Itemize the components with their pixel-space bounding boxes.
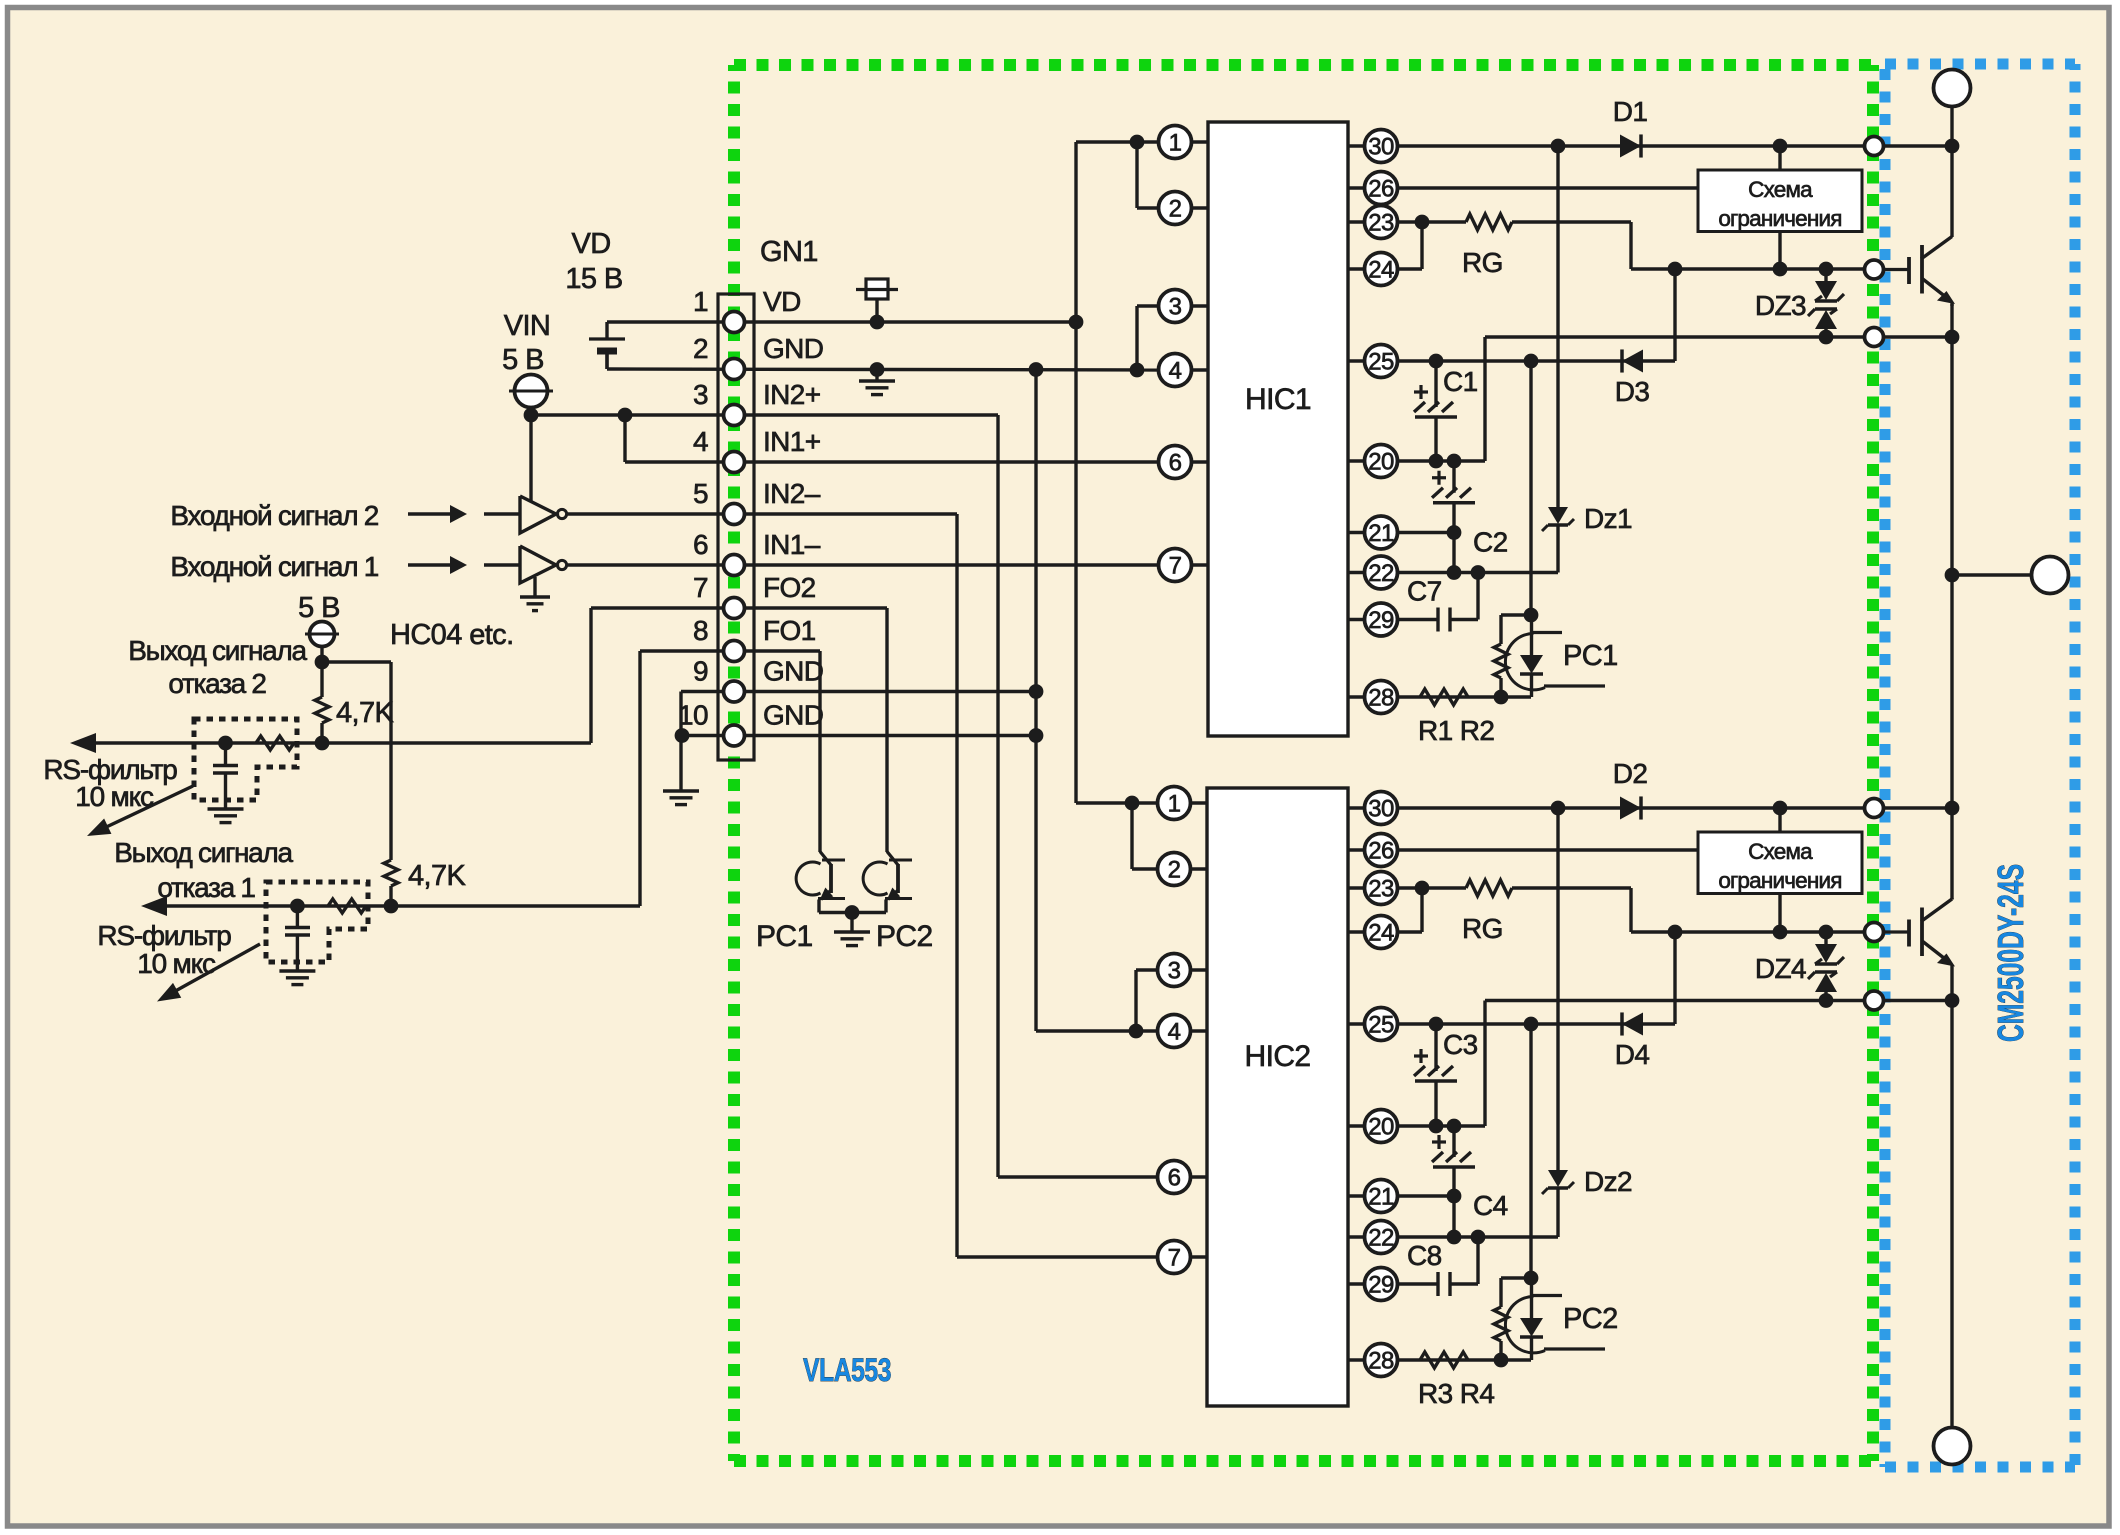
label RS-filter 2 (43, 754, 177, 812)
svg-text:3: 3 (1168, 958, 1181, 985)
wire limiter to gate ch2 (1778, 894, 1781, 933)
capacitor C3 (1414, 1024, 1457, 1126)
svg-text:5: 5 (693, 478, 708, 509)
svg-text:R3 R4: R3 R4 (1418, 1378, 1494, 1409)
label CM2500DY-24S (1990, 864, 2031, 1042)
svg-text:C2: C2 (1473, 527, 1508, 558)
wire GND pin9 (681, 692, 1036, 792)
power terminal 5V (305, 622, 339, 663)
wire IGBT2 emitter (1945, 965, 1960, 1428)
svg-text:GN1: GN1 (760, 236, 818, 268)
svg-text:7: 7 (1169, 553, 1182, 580)
label Dz2 (1584, 1166, 1632, 1197)
resistor R3 (1420, 1352, 1468, 1368)
pointer arrow RS-filter 1 (157, 944, 260, 1002)
svg-text:Схема: Схема (1748, 177, 1813, 202)
svg-text:RG: RG (1462, 247, 1503, 278)
svg-text:1: 1 (1169, 130, 1182, 157)
svg-text:IN1–: IN1– (763, 529, 821, 560)
svg-text:D1: D1 (1613, 96, 1648, 127)
hybrid IC HIC1 (1208, 122, 1348, 736)
resistor R1 (1420, 689, 1468, 705)
svg-text:20: 20 (1368, 1114, 1394, 1141)
resistor 4,7K lower (384, 662, 398, 906)
RS-filter 1 resistor (290, 899, 366, 914)
svg-text:25: 25 (1368, 349, 1394, 376)
wire pin25 ch1 (1398, 354, 1622, 369)
wire zener column Dz2 (1556, 808, 1559, 1170)
svg-text:7: 7 (1168, 1245, 1181, 1272)
RS-filter 2 capacitor (213, 743, 238, 809)
wire pin21 ch1 (1398, 525, 1461, 540)
wire to limiter box ch1 (1778, 146, 1781, 170)
transistor IGBT2 (lower) (1884, 898, 1956, 967)
svg-text:HIC2: HIC2 (1245, 1040, 1311, 1073)
svg-text:GND: GND (763, 700, 823, 731)
wire pin22 ch2 (1398, 1196, 1558, 1244)
svg-text:VIN: VIN (504, 310, 551, 342)
capacitor C2 (1432, 461, 1475, 533)
wire phase node (1945, 337, 1960, 900)
wire pin30 ch2 (1398, 801, 1866, 816)
transistor IGBT1 (upper) (1884, 237, 1956, 307)
HIC1 left pin circles (1158, 126, 1208, 582)
terminal G1 circle (1865, 137, 1884, 156)
svg-text:PC1: PC1 (756, 920, 813, 953)
label input signal 2 (170, 500, 378, 531)
svg-text:10: 10 (678, 700, 708, 731)
svg-text:DZ4: DZ4 (1755, 953, 1806, 984)
wire pin23 ch2 (1398, 881, 1631, 896)
svg-text:4: 4 (693, 426, 708, 457)
label D2 (1613, 758, 1648, 789)
wire collector bus (1945, 107, 1960, 238)
capacitor C8 (1438, 1272, 1450, 1296)
limiter box (Схема ограничения) ch2 (1698, 832, 1862, 894)
svg-text:D2: D2 (1613, 758, 1648, 789)
HIC2 right pin circles (1348, 792, 1398, 1377)
svg-text:7: 7 (693, 572, 708, 603)
svg-text:RS-фильтр: RS-фильтр (97, 920, 231, 951)
wire VD riser to HIC1 (1076, 135, 1166, 322)
svg-text:RG: RG (1462, 913, 1503, 944)
svg-text:23: 23 (1368, 876, 1394, 903)
wire to limiter box ch2 (1778, 808, 1781, 832)
svg-text:4,7K: 4,7K (336, 697, 395, 729)
HIC2 left pin circles (1158, 787, 1208, 1274)
label DZ4 (1755, 953, 1806, 984)
wire pin30 ch1 (1398, 139, 1866, 154)
label C4 (1473, 1190, 1508, 1221)
wire IN2- inverter out (567, 512, 957, 515)
wire IN1- inverter out (567, 563, 1166, 566)
svg-text:21: 21 (1368, 520, 1394, 547)
wire pin22 ch1 (1398, 533, 1558, 580)
terminal C2 circle (1865, 799, 1884, 818)
svg-text:2: 2 (1168, 857, 1181, 884)
wire pin29 ch1 (1398, 573, 1478, 620)
label Dz1 (1584, 503, 1632, 534)
battery VD (589, 322, 625, 369)
svg-text:2: 2 (1169, 196, 1182, 223)
svg-text:GND: GND (763, 656, 823, 687)
svg-text:D4: D4 (1615, 1039, 1650, 1070)
input arrow 2 (408, 505, 520, 523)
wire pin30 to IGBT1 (1866, 144, 1952, 147)
svg-text:IN1+: IN1+ (763, 426, 821, 457)
ground RS-filter 1 (279, 971, 315, 985)
wire IN1+ branch (625, 415, 1166, 462)
label input signal 1 (170, 551, 378, 582)
label D1 (1613, 96, 1648, 127)
HIC1 right pin circles (1348, 130, 1398, 714)
label D4 (1615, 1039, 1650, 1070)
wire PC column ch1 (1524, 361, 1539, 622)
svg-text:отказа 1: отказа 1 (157, 872, 255, 903)
optocoupler LED PC1 (1505, 615, 1605, 697)
wire pin21 ch2 (1398, 1189, 1461, 1204)
diode D4 (1622, 1012, 1643, 1035)
wire pin28 ch1 (1398, 690, 1531, 705)
resistor R4 (1494, 1278, 1531, 1360)
svg-text:D3: D3 (1615, 376, 1650, 407)
svg-text:PC2: PC2 (876, 920, 933, 953)
label D3 (1615, 376, 1650, 407)
connector GN1 pins (678, 286, 823, 746)
svg-text:HIC1: HIC1 (1245, 383, 1311, 416)
svg-text:6: 6 (1169, 450, 1182, 477)
terminal output (middle big circle) (2032, 557, 2069, 594)
svg-text:C4: C4 (1473, 1190, 1508, 1221)
svg-text:6: 6 (693, 529, 708, 560)
svg-text:FO2: FO2 (763, 572, 816, 603)
svg-text:22: 22 (1368, 560, 1394, 587)
wire IN2- riser to HIC2 (957, 514, 1166, 1257)
svg-text:VD: VD (763, 286, 801, 317)
wire VD net (607, 315, 1083, 330)
wire PC emitters (819, 905, 886, 932)
capacitor C7 (1438, 608, 1450, 632)
wire GND to HIC1 pin3 (1137, 306, 1166, 370)
svg-text:C8: C8 (1407, 1240, 1442, 1271)
wire D4 branch (1622, 932, 1675, 1024)
wire zener column Dz1 (1556, 146, 1559, 507)
zener pair DZ3 (1808, 269, 1844, 344)
svg-text:2: 2 (693, 333, 708, 364)
ground pin9 (663, 791, 699, 805)
label VD 15V (565, 228, 622, 295)
ground inverter U2 (520, 577, 550, 611)
wire gate line ch2 (1631, 888, 1866, 939)
svg-text:5 В: 5 В (298, 592, 340, 624)
wire pin24 ch1 (1398, 222, 1422, 269)
svg-text:20: 20 (1368, 449, 1394, 476)
svg-text:9: 9 (693, 656, 708, 687)
svg-text:3: 3 (1169, 294, 1182, 321)
resistor RG ch2 (1466, 880, 1512, 896)
RS-filter 2 resistor (218, 736, 294, 751)
limiter box (Схема ограничения) ch1 (1698, 170, 1862, 232)
svg-text:24: 24 (1368, 257, 1394, 284)
wire pin23 ch1 (1398, 215, 1631, 230)
svg-text:28: 28 (1368, 685, 1394, 712)
CM2500DY-24S module boundary (blue dotted) (1885, 64, 2075, 1467)
optocoupler LED PC2 (1505, 1278, 1605, 1360)
label RG ch1 (1462, 247, 1503, 278)
terminal gate1 circle (1865, 260, 1884, 279)
label RS-filter 1 (97, 920, 231, 979)
svg-text:Dz2: Dz2 (1584, 1166, 1632, 1197)
wire D3 branch (1622, 269, 1675, 361)
svg-text:26: 26 (1368, 838, 1394, 865)
wire emitter line 2 to node (1866, 999, 1952, 1002)
diode D3 (1622, 349, 1643, 372)
svg-text:отказа 2: отказа 2 (168, 668, 266, 699)
label R1 R2 (1418, 715, 1494, 746)
svg-text:23: 23 (1368, 210, 1394, 237)
phototransistor PC1 (796, 852, 845, 913)
label PC1 (1563, 640, 1618, 672)
svg-text:Dz1: Dz1 (1584, 503, 1632, 534)
svg-text:4: 4 (1168, 1019, 1181, 1046)
svg-text:3: 3 (693, 379, 708, 410)
label HC04 etc. (390, 619, 514, 651)
svg-text:CM2500DY-24S: CM2500DY-24S (1990, 864, 2031, 1042)
svg-text:DZ3: DZ3 (1755, 290, 1806, 321)
zener Dz1 (1542, 507, 1574, 573)
label C7 (1407, 576, 1442, 607)
wire pin30 to IGBT2 (1866, 806, 1952, 809)
wire GND pin10 (675, 728, 1036, 743)
svg-text:HC04 etc.: HC04 etc. (390, 619, 514, 651)
label PC1 (756, 920, 813, 953)
label PC2 (1563, 1303, 1618, 1335)
svg-text:GND: GND (763, 333, 823, 364)
label C8 (1407, 1240, 1442, 1271)
connector GN1 body (718, 294, 754, 760)
ground RS-filter 2 (208, 809, 244, 823)
svg-text:PC2: PC2 (1563, 1303, 1618, 1335)
svg-text:28: 28 (1368, 1348, 1394, 1375)
svg-text:30: 30 (1368, 796, 1394, 823)
input arrow 1 (408, 556, 520, 574)
svg-text:30: 30 (1368, 134, 1394, 161)
svg-text:1: 1 (1168, 791, 1181, 818)
wire pin26 ch2 (1398, 848, 1698, 851)
label 5V fault (298, 592, 340, 624)
terminal gate2 circle (1865, 923, 1884, 942)
zener Dz2 (1542, 1170, 1574, 1237)
label GN1 (760, 236, 818, 268)
svg-text:Выход сигнала: Выход сигнала (114, 837, 293, 868)
label fault output 2 (128, 635, 307, 699)
node 5V rail (315, 655, 391, 670)
power terminal VIN (509, 375, 553, 416)
label VLA553 (803, 1352, 891, 1388)
label RG ch2 (1462, 913, 1503, 944)
svg-text:25: 25 (1368, 1012, 1394, 1039)
svg-text:24: 24 (1368, 920, 1394, 947)
ground GND net (859, 370, 895, 395)
wire FO2 output (70, 608, 734, 753)
wire limiter to gate ch1 (1778, 232, 1781, 270)
label VIN 5V (502, 310, 550, 376)
wire pin29 ch2 (1398, 1237, 1478, 1284)
test point symbol VD (856, 279, 898, 322)
zener pair DZ4 (1808, 932, 1844, 1008)
svg-text:4,7K: 4,7K (408, 860, 467, 892)
svg-text:22: 22 (1368, 1225, 1394, 1252)
label 4,7K upper (336, 697, 395, 729)
wire IN2+ riser to HIC2 (998, 415, 1166, 1177)
svg-text:R1 R2: R1 R2 (1418, 715, 1494, 746)
wire emitter line ch1 (1485, 337, 1866, 461)
svg-text:5 В: 5 В (502, 344, 544, 376)
wire PC column ch2 (1524, 1024, 1539, 1285)
wire FO2 to PC2 (734, 608, 887, 852)
wire VIN to inverter (529, 415, 532, 501)
terminal C1E2-C (top big circle) (1934, 70, 1971, 107)
hybrid IC HIC2 (1207, 788, 1348, 1406)
wire emitter line to node (1866, 335, 1952, 338)
svg-text:6: 6 (1168, 1165, 1181, 1192)
label fault output 1 (114, 837, 293, 903)
svg-text:C1: C1 (1443, 366, 1478, 397)
wire GND riser to HIC2 (1029, 370, 1166, 1039)
RS-filter 1 box (dotted) (266, 882, 368, 962)
wire emitter line ch2 (1485, 1001, 1866, 1127)
label C2 (1473, 527, 1508, 558)
wire pin20 ch2 (1398, 1119, 1485, 1134)
svg-text:ограничения: ограничения (1718, 868, 1841, 893)
svg-text:PC1: PC1 (1563, 640, 1618, 672)
resistor 4,7K upper (315, 662, 329, 743)
capacitor C4 (1432, 1126, 1475, 1196)
wire gate line ch1 (1631, 222, 1866, 276)
wire GND net (607, 354, 1166, 377)
svg-text:Входной сигнал 2: Входной сигнал 2 (170, 500, 378, 531)
wire FO1 to PC1 (734, 651, 820, 852)
svg-text:VD: VD (571, 228, 610, 260)
RS-filter 2 box (dotted) (194, 719, 297, 800)
label 4,7K lower (408, 860, 467, 892)
svg-text:Входной сигнал 1: Входной сигнал 1 (170, 551, 378, 582)
svg-text:4: 4 (1169, 358, 1182, 385)
svg-text:VLA553: VLA553 (803, 1352, 891, 1388)
wire FO1 output (141, 651, 734, 916)
svg-text:15 В: 15 В (565, 263, 622, 295)
label C3 (1443, 1029, 1478, 1060)
wire pin25 ch2 (1398, 1017, 1622, 1032)
VLA553 driver boundary (green dotted) (734, 65, 1873, 1461)
diode D2 (1620, 796, 1641, 819)
ground PC emitters (834, 932, 870, 946)
svg-text:C3: C3 (1443, 1029, 1478, 1060)
wire pin24 ch2 (1398, 888, 1422, 932)
pointer arrow RS-filter 2 (87, 786, 193, 836)
terminal E2 circle (1865, 991, 1884, 1010)
wire IN2+ from VIN (524, 408, 998, 423)
resistor RG ch1 (1466, 214, 1512, 230)
svg-text:26: 26 (1368, 176, 1394, 203)
svg-text:IN2+: IN2+ (763, 379, 821, 410)
svg-text:8: 8 (693, 615, 708, 646)
terminal E1 circle (1865, 328, 1884, 347)
wire VD riser to HIC2 (1076, 322, 1166, 869)
wire pin28 ch2 (1398, 1353, 1531, 1368)
svg-text:10 мкс: 10 мкс (75, 781, 154, 812)
svg-text:29: 29 (1368, 1272, 1394, 1299)
svg-text:1: 1 (693, 286, 708, 317)
svg-text:FO1: FO1 (763, 615, 816, 646)
svg-text:21: 21 (1368, 1184, 1394, 1211)
RS-filter 1 capacitor (285, 906, 310, 971)
inverter U2 (input 1) (520, 546, 567, 583)
phototransistor PC2 (863, 852, 912, 913)
wire IGBT1 emitter (1945, 304, 1960, 344)
svg-text:IN2–: IN2– (763, 478, 821, 509)
capacitor C1 (1414, 361, 1457, 461)
label C1 (1443, 366, 1478, 397)
label DZ3 (1755, 290, 1806, 321)
terminal E2 bottom (big circle) (1934, 1428, 1971, 1465)
wire pin20 ch1 (1398, 454, 1485, 469)
svg-text:Выход сигнала: Выход сигнала (128, 635, 307, 666)
inverter U1 (input 2) (520, 496, 567, 533)
resistor R2 (1494, 615, 1531, 697)
svg-text:29: 29 (1368, 607, 1394, 634)
wire pin26 ch1 (1398, 186, 1698, 189)
svg-text:Схема: Схема (1748, 839, 1813, 864)
svg-text:ограничения: ограничения (1718, 206, 1841, 231)
diode D1 (1620, 134, 1641, 157)
wire to output terminal (1952, 573, 2031, 576)
label PC2 (876, 920, 933, 953)
label R3 R4 (1418, 1378, 1494, 1409)
svg-text:C7: C7 (1407, 576, 1442, 607)
